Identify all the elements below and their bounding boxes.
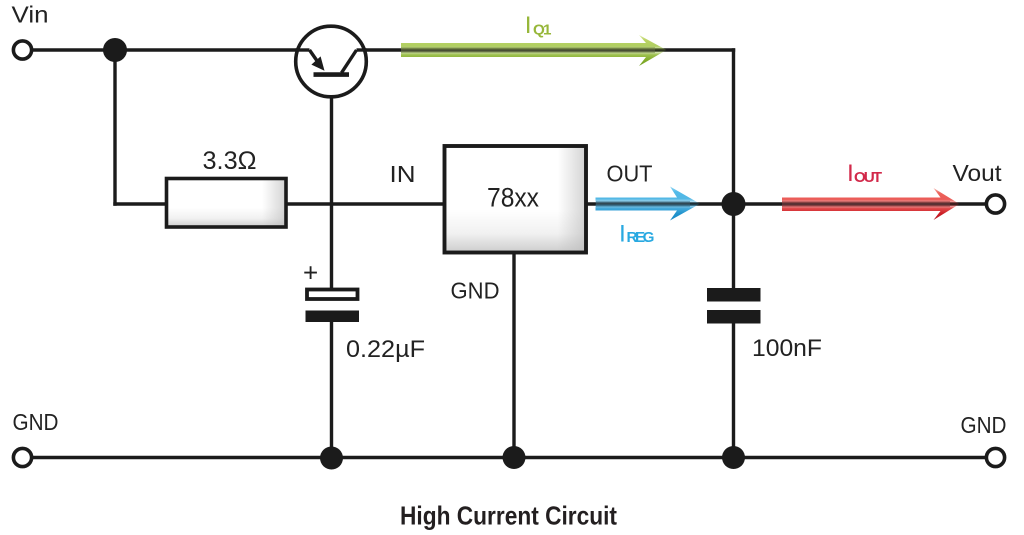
svg-text:GND: GND [451, 278, 500, 304]
resistor R1 3.3ohm [167, 179, 287, 228]
capacitor C2 100nF [707, 288, 761, 324]
svg-text:I: I [525, 12, 532, 39]
junction: output node [722, 192, 746, 216]
junction: ground rail at 0.22uF [320, 447, 343, 470]
svg-text:High Current Circuit: High Current Circuit [400, 501, 617, 531]
terminal GND left [13, 448, 31, 466]
arrow IREG (blue current arrow) [596, 187, 701, 221]
wire: output node down to 100nF cap [732, 204, 735, 289]
svg-text:OUT: OUT [607, 161, 653, 187]
wire: transistor collector to top-right corner [365, 48, 735, 51]
wire: Vin junction down [113, 50, 116, 206]
svg-text:GND: GND [13, 409, 59, 435]
wire: top-right corner down to output node [732, 48, 735, 204]
svg-text:OUT: OUT [854, 169, 883, 186]
svg-text:78xx: 78xx [487, 183, 539, 213]
capacitor C1 0.22uF (polarized) [306, 290, 360, 323]
wire: transistor base down to 0.22uF cap [330, 74, 333, 289]
svg-text:Vout: Vout [953, 160, 1003, 186]
junction: Vin node [103, 38, 127, 62]
svg-text:IN: IN [390, 161, 416, 187]
junction: ground rail at 78xx GND [503, 446, 526, 469]
svg-text:Vin: Vin [12, 2, 49, 28]
svg-text:I: I [619, 221, 626, 248]
wire: bottom ground rail [32, 456, 986, 459]
svg-text:I: I [847, 160, 854, 187]
svg-text:+: + [303, 258, 318, 288]
svg-text:Q1: Q1 [533, 22, 552, 39]
svg-text:GND: GND [961, 412, 1007, 438]
terminal GND right [986, 448, 1004, 466]
arrow IOUT (red current arrow) [782, 188, 960, 220]
svg-text:100nF: 100nF [752, 335, 822, 362]
wire: 78xx GND pin down to ground rail [512, 252, 515, 458]
arrow IQ1 (green current arrow) [401, 35, 667, 66]
wire: Vin to transistor emitter (top-left horizontal) [32, 48, 299, 51]
wire: to resistor left [113, 202, 168, 205]
terminal Vout [986, 195, 1004, 213]
wire: 78xx OUT to output node [587, 202, 734, 205]
wire: output node to Vout terminal [734, 202, 986, 205]
junction: ground rail at 100nF [722, 446, 745, 469]
svg-text:0.22µF: 0.22µF [346, 336, 425, 363]
svg-text:3.3Ω: 3.3Ω [203, 147, 257, 175]
wire: 0.22uF cap to ground rail [330, 321, 333, 458]
wire: 100nF cap to ground rail [732, 322, 735, 458]
transistor Q1 (PNP) [296, 26, 367, 97]
terminal Vin [13, 41, 31, 59]
regulator U1 78xx [445, 146, 587, 253]
svg-text:REG: REG [627, 229, 655, 246]
wire: resistor right to 78xx IN [285, 202, 445, 205]
